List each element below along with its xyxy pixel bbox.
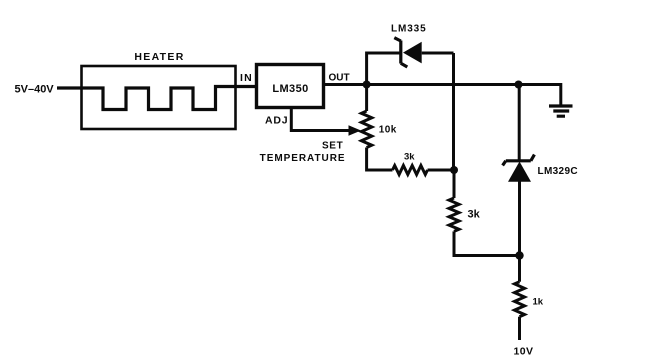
svg-text:LM329C: LM329C [538, 166, 578, 177]
svg-text:LM350: LM350 [272, 83, 308, 95]
svg-text:IN: IN [240, 72, 253, 84]
svg-text:10V: 10V [514, 346, 534, 358]
svg-text:TEMPERATURE: TEMPERATURE [260, 153, 346, 164]
svg-text:LM335: LM335 [391, 24, 427, 35]
svg-text:SET: SET [322, 141, 344, 152]
svg-text:1k: 1k [533, 297, 544, 308]
svg-text:3k: 3k [404, 152, 415, 163]
svg-text:3k: 3k [468, 209, 481, 221]
svg-text:ADJ: ADJ [265, 115, 288, 127]
svg-text:HEATER: HEATER [134, 51, 184, 63]
svg-text:10k: 10k [379, 125, 397, 136]
svg-text:OUT: OUT [329, 73, 350, 84]
svg-text:5V–40V: 5V–40V [15, 84, 55, 96]
